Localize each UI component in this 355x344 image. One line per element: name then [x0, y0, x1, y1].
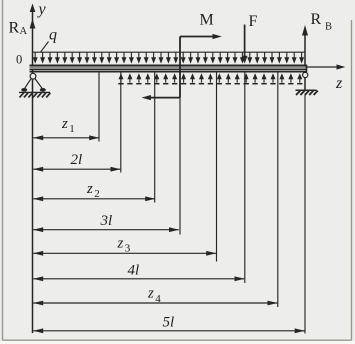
svg-text:z: z — [61, 116, 68, 132]
svg-text:4: 4 — [155, 293, 161, 305]
svg-text:4l: 4l — [128, 262, 140, 278]
label q + leader line — [41, 27, 58, 53]
extension line z1 — [98, 72, 100, 142]
svg-text:z: z — [86, 181, 93, 197]
distributed load q: down arrows — [33, 52, 304, 63]
svg-text:1: 1 — [69, 123, 75, 135]
extension line 2l — [120, 72, 122, 173]
extension line 4l (below F) — [244, 72, 246, 284]
svg-text:5l: 5l — [163, 314, 175, 330]
reaction R_B (up arrow at right support + label) — [302, 11, 332, 65]
svg-text:q: q — [49, 27, 57, 44]
svg-text:A: A — [20, 26, 28, 37]
z-axis — [307, 64, 345, 92]
dimension 2l — [33, 152, 120, 172]
svg-text:F: F — [249, 13, 258, 30]
svg-text:R: R — [311, 11, 322, 28]
svg-text:0: 0 — [16, 53, 22, 67]
extension line z2 — [154, 72, 156, 203]
distributed load below beam: up arrows with base serifs — [118, 73, 302, 84]
svg-text:B: B — [325, 22, 332, 33]
moment M (couple: vertical bar, top arrow right, bottom arrow left) — [142, 12, 222, 101]
dimension z3 — [33, 235, 216, 255]
svg-text:M: M — [200, 12, 214, 29]
extension line 5l (below support B) — [304, 95, 306, 334]
distributed load q: top line — [33, 51, 306, 53]
reaction R_A (arrowhead on y axis + label) — [9, 19, 36, 38]
extension line z3 — [216, 72, 218, 262]
roller support B (pin circle + ground hatching) — [296, 72, 318, 95]
svg-text:R: R — [9, 20, 20, 37]
beam — [30, 65, 308, 73]
dimension 3l — [33, 213, 179, 232]
svg-text:2l: 2l — [71, 152, 83, 168]
svg-text:y: y — [37, 1, 47, 18]
extension line 3l (below M) — [179, 98, 181, 235]
dimension 5l — [33, 314, 305, 333]
svg-text:3: 3 — [125, 243, 131, 255]
force F (vertical arrow onto beam) — [242, 13, 258, 64]
dimension z2 — [33, 181, 155, 201]
extension line z4 — [277, 72, 279, 308]
y-axis — [30, 1, 47, 333]
dimension z1 — [33, 116, 99, 140]
svg-text:z: z — [335, 75, 343, 92]
dimension 4l — [33, 262, 244, 281]
svg-text:3l: 3l — [100, 213, 113, 229]
pin support A (hinge circle, triangle, ground hatching) — [19, 73, 50, 97]
dimension z4 — [33, 286, 277, 306]
svg-text:z: z — [147, 286, 154, 302]
svg-text:2: 2 — [94, 188, 100, 200]
svg-text:z: z — [117, 235, 124, 251]
